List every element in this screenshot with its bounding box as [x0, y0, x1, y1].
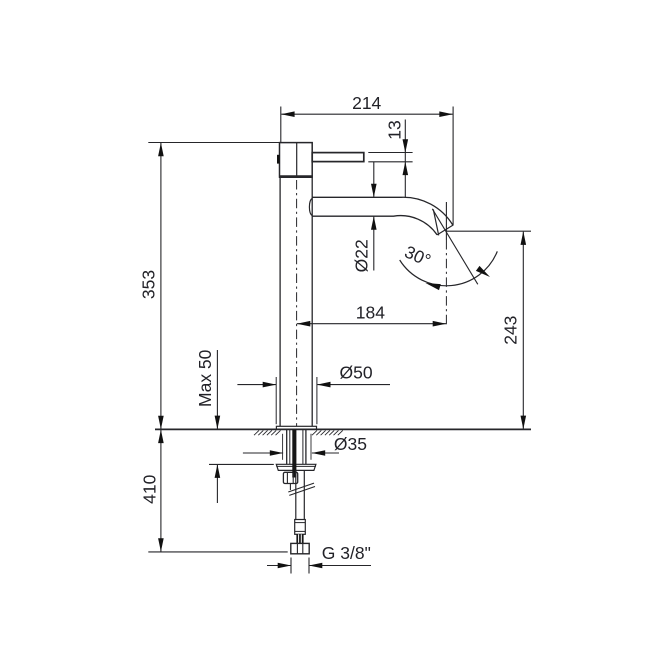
set screw tab on head left [277, 155, 280, 164]
dimension diameter 22 upper arrow [371, 184, 377, 198]
extension line G nut right [308, 558, 310, 574]
svg-text:243: 243 [501, 316, 521, 345]
G nut facet right [302, 543, 304, 553]
svg-text:214: 214 [352, 93, 381, 113]
extension line spout outlet (243 top) [446, 230, 531, 232]
crimp band 2 [295, 530, 306, 532]
dimension 353 top arrow [158, 143, 164, 157]
extension line lever top [368, 152, 412, 154]
hex nut facet right [292, 472, 294, 483]
head bottom thick edge [279, 175, 313, 178]
dimension 243 line [522, 232, 524, 429]
extension line 214/243 right (to spout tip) [452, 107, 454, 226]
dimension 184 left arrow [297, 321, 311, 327]
faucet head (cartridge housing) [280, 143, 313, 178]
hose crimp collar [295, 520, 306, 535]
svg-text:184: 184 [356, 302, 385, 322]
dimension G 3/8 right line [309, 565, 371, 567]
dimension diameter 35 right line [312, 452, 339, 454]
threaded shank left line [286, 430, 288, 465]
outlet centerline (dash) [445, 240, 447, 327]
shank inner left line [289, 430, 291, 465]
mounting hex nut [283, 472, 297, 483]
30 degree arc [400, 251, 498, 285]
30 degree arc right arrow [476, 266, 490, 277]
dimension G 3/8 left arrow [278, 563, 292, 569]
30 degree flow direction line [432, 209, 478, 284]
break symbol line 1 [288, 483, 314, 492]
dimension 243 bottom arrow [521, 416, 527, 430]
dimension 410 bottom arrow [158, 538, 164, 552]
30 degree arc left arrow [426, 283, 441, 290]
extension line lever bottom [368, 161, 412, 163]
svg-text:G 3/8": G 3/8" [322, 543, 371, 563]
svg-text:353: 353 [139, 270, 159, 299]
dimension 353 bottom arrow [158, 416, 164, 430]
dimension 13 upper arrow [403, 139, 409, 153]
dimension 214 line [281, 113, 452, 115]
svg-text:Max 50: Max 50 [195, 349, 215, 407]
extension line base right (d50) [316, 377, 318, 424]
dimension 410 top arrow [158, 430, 164, 444]
dimension diameter 50 left arrow [263, 382, 277, 388]
svg-text:Ø35: Ø35 [334, 434, 367, 454]
flange inner line [276, 465, 316, 467]
dimension 353 line [160, 143, 162, 429]
head joint line [296, 143, 298, 178]
aerator edge line [433, 209, 438, 235]
hose neck slot 1 [298, 534, 300, 543]
spout top edge [312, 197, 452, 225]
dimension diameter 35 left line [243, 452, 283, 454]
flexible hose left line [295, 471, 297, 520]
dimension diameter 35 right arrow [312, 450, 326, 456]
hole edge extension left (d35) [282, 434, 284, 460]
deck hatching right of hole [312, 430, 343, 435]
base plate [276, 426, 316, 429]
dimension 214 left arrow [281, 111, 295, 117]
flexible hose right line [303, 471, 305, 520]
break symbol line 2 [289, 487, 315, 496]
extension line flange top (Max 50 bottom) [209, 463, 274, 465]
dimension G 3/8 right arrow [309, 563, 323, 569]
dimension G 3/8 left line [267, 565, 291, 567]
crimp band 1 [295, 522, 306, 524]
dimension diameter 22 lower line [373, 216, 375, 270]
lever handle [312, 153, 364, 162]
svg-text:Ø22: Ø22 [351, 239, 371, 272]
dimension 184 line [297, 323, 446, 325]
spout bottom edge [312, 216, 437, 235]
top extension line (head top, left) [148, 142, 279, 144]
hole edge extension right (d35) [310, 434, 312, 460]
body right edge [311, 178, 313, 427]
svg-text:410: 410 [140, 474, 160, 503]
hose stub below nut left [289, 484, 291, 491]
dimension 13 lower arrow [403, 162, 409, 176]
dimension Max 50 lower line [216, 465, 218, 503]
dimension diameter 50 right arrow [317, 382, 331, 388]
dimension diameter 22 upper line [373, 162, 375, 197]
dimension diameter 50 right line [317, 384, 390, 386]
dimension Max 50 lower arrow [215, 464, 221, 478]
spout outlet face [437, 225, 453, 235]
body centerline (dash-dot) [296, 180, 298, 428]
extension line base left (d50) [275, 377, 277, 424]
dimension diameter 22 lower arrow [371, 216, 377, 230]
dimension Max 50 upper line [216, 350, 218, 429]
threaded stud (dark) [292, 430, 296, 478]
hose neck (dark) [296, 534, 303, 543]
bottom extension line (hose end) [148, 551, 287, 553]
dimension diameter 35 left arrow [270, 450, 284, 456]
dimension diameter 50 left line [237, 384, 276, 386]
extension line G nut left [290, 558, 292, 574]
spout butt cap arc [309, 198, 312, 216]
G nut facet left [296, 543, 298, 553]
outlet vertical line (solid) [445, 202, 447, 240]
svg-text:13: 13 [384, 120, 404, 139]
dimension 214 right arrow [439, 111, 453, 117]
hex nut facet left [286, 472, 288, 483]
G 3/8 connection nut [291, 543, 309, 553]
dimension 184 right arrow [433, 321, 447, 327]
shank inner right line [302, 430, 304, 465]
svg-text:Ø50: Ø50 [340, 362, 373, 382]
dimension 243 top arrow [521, 231, 527, 245]
body left edge [279, 178, 281, 427]
deck surface line [155, 428, 531, 430]
deck hatching left of hole [254, 430, 281, 435]
mounting flange washer [276, 464, 316, 470]
hose neck slot 2 [300, 534, 302, 543]
dimension Max 50 upper arrow [215, 416, 221, 430]
threaded shank right line [305, 430, 307, 465]
extension line 214 left [280, 107, 282, 143]
dimension 13 line [404, 120, 406, 198]
dimension 410 line [160, 430, 162, 552]
